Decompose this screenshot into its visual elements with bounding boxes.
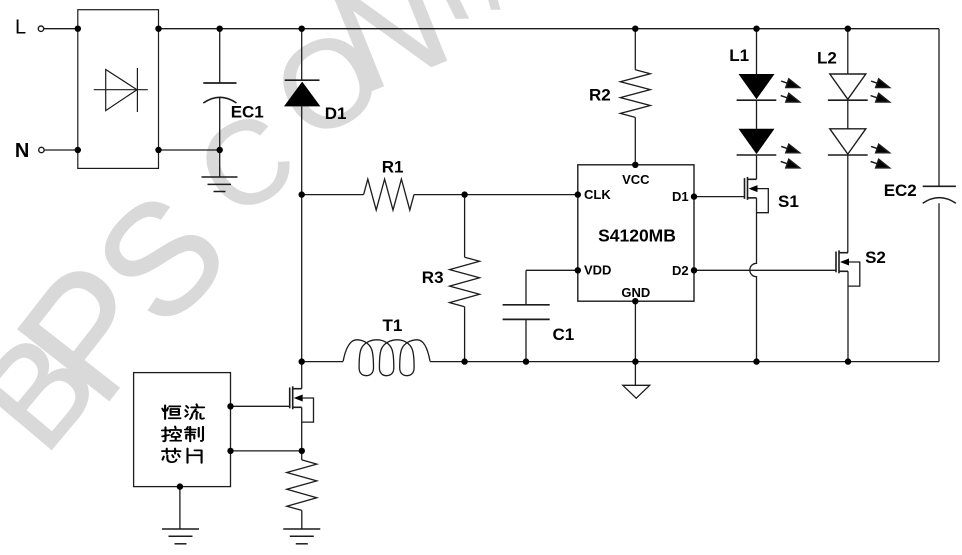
node D1-R1 node [299, 191, 305, 197]
LED L1b [739, 129, 775, 154]
transistor S2 [836, 250, 860, 286]
LED L1a [739, 74, 775, 99]
wire R3 bottom [464, 307, 466, 362]
wire L1 between LEDs [756, 100, 758, 129]
LED L2b [830, 129, 866, 154]
svg-text:R1: R1 [382, 158, 404, 177]
control chip box [134, 373, 231, 487]
node control chip sense pin [227, 448, 233, 454]
node S1 source node [753, 358, 759, 364]
resistor R4 (sense) [287, 460, 317, 511]
wire control chip to sense node [231, 450, 302, 452]
wire bridge to EC1 node [159, 149, 220, 151]
node D1 cathode node [299, 26, 305, 32]
wire D1 top [301, 29, 303, 80]
bridge rectifier [78, 10, 159, 169]
svg-text:VCC: VCC [622, 172, 650, 187]
node Q1 source sense node [299, 448, 305, 454]
wire C1 top [525, 270, 527, 305]
wire sense resistor to ground [301, 510, 303, 529]
svg-text:EC2: EC2 [884, 181, 917, 200]
wire right edge top [938, 29, 940, 187]
svg-text:N: N [15, 140, 29, 162]
node bridge DC+ node [155, 26, 161, 32]
ground EC1 [202, 177, 238, 192]
node R1-R3-CLK node [461, 191, 467, 197]
wire L1 chain top [756, 29, 758, 74]
svg-text:D1: D1 [672, 189, 689, 204]
wire EC1 bottom to ground [219, 98, 221, 177]
svg-text:S1: S1 [778, 192, 799, 211]
resistor R3 [450, 257, 480, 307]
node L2 top node [845, 26, 851, 32]
capacitor EC1 [203, 83, 236, 103]
wire S1 source with hop over D2 line [750, 198, 757, 362]
svg-text:CLK: CLK [584, 187, 611, 202]
wire D1 bottom to T1 node [301, 106, 303, 361]
wire VDD to C1 [526, 269, 578, 271]
LED light arrows L1a [781, 79, 890, 168]
node pin D1 [691, 193, 697, 199]
LED light arrows L2b [871, 146, 877, 148]
wire control chip ground [179, 487, 181, 529]
wire N terminal to bridge [44, 149, 78, 151]
wire node to R1 [302, 194, 364, 196]
transistor Q1 (buck switch) [290, 386, 314, 422]
wire S2 source [847, 271, 849, 361]
diode D1 [285, 79, 320, 81]
wire D2 pin to S2 gate [694, 269, 836, 271]
IC U1 S4120MB [578, 165, 694, 301]
wire R2 to VCC [634, 117, 636, 164]
node bridge AC+ node [75, 26, 81, 32]
wire bottom bus left [302, 361, 343, 363]
svg-text:L2: L2 [817, 48, 837, 67]
node control chip gnd pin [177, 483, 183, 489]
node bridge out node [155, 147, 161, 153]
resistor R1 [364, 179, 414, 210]
node pin CLK [575, 191, 581, 197]
capacitor EC2 [923, 186, 956, 203]
svg-text:S4120MB: S4120MB [598, 225, 676, 245]
capacitor C1 [503, 305, 550, 320]
wire L2 to S2 drain [847, 155, 849, 253]
node S2 source node [845, 358, 851, 364]
wire Q1 source to sense resistor [301, 407, 303, 460]
node R3 bottom node [461, 358, 467, 364]
wire EC1 top [219, 29, 221, 83]
node GND bus node [632, 358, 638, 364]
wire L1 to S1 drain [756, 155, 758, 179]
LED L2a [830, 74, 866, 99]
node EC1 top node [217, 26, 223, 32]
node C1 bottom node [523, 358, 529, 364]
transistor S1 [745, 177, 769, 213]
svg-text:S2: S2 [865, 248, 886, 267]
node T1 left node [299, 358, 305, 364]
node pin VCC [632, 162, 638, 168]
svg-text:L1: L1 [729, 46, 749, 65]
drain wire Q1 [301, 362, 303, 389]
inductor T1 [343, 340, 430, 376]
earth ground below IC [623, 385, 650, 398]
svg-text:GND: GND [621, 285, 650, 300]
node bridge AC- node [75, 147, 81, 153]
wire top bus [159, 28, 940, 30]
svg-text:C1: C1 [553, 325, 575, 344]
node L1 top node [753, 26, 759, 32]
ground control chip [162, 529, 199, 544]
svg-text:T1: T1 [383, 316, 403, 335]
ground sense resistor [283, 529, 320, 544]
wire D1 pin to S1 gate [694, 196, 745, 198]
resistor R2 [620, 70, 650, 118]
wire L terminal to bridge [44, 28, 78, 30]
LED light arrows L1b [781, 146, 787, 148]
wire control chip to Q1 gate [231, 405, 290, 407]
control chip label 恒流控制芯片 [162, 404, 204, 463]
wire GND pin down [634, 301, 636, 385]
wire right edge bottom [938, 203, 940, 361]
wire C1 bottom [525, 319, 527, 361]
terminal N [39, 147, 44, 152]
svg-text:R2: R2 [589, 85, 611, 104]
terminal L [38, 26, 43, 31]
wire L2 chain top [847, 29, 849, 74]
svg-text:EC1: EC1 [231, 102, 264, 121]
node R2 top node [632, 26, 638, 32]
svg-text:D2: D2 [672, 263, 689, 278]
wire R3 top [464, 195, 466, 258]
svg-text:L: L [15, 17, 26, 39]
node control chip gate pin [227, 403, 233, 409]
LED light arrows L2a [871, 81, 877, 83]
svg-text:D1: D1 [325, 104, 347, 123]
watermark [0, 0, 500, 477]
node pin VDD [575, 267, 581, 273]
svg-text:R3: R3 [422, 268, 444, 287]
wire R1 to CLK [414, 194, 578, 196]
node EC1 bottom node [217, 147, 223, 153]
wire bottom bus right [430, 361, 939, 363]
wire R2 top [634, 29, 636, 70]
wire L2 between LEDs [847, 100, 849, 129]
node pin D2 [691, 267, 697, 273]
svg-text:VDD: VDD [584, 263, 611, 278]
node pin GND [632, 298, 638, 304]
